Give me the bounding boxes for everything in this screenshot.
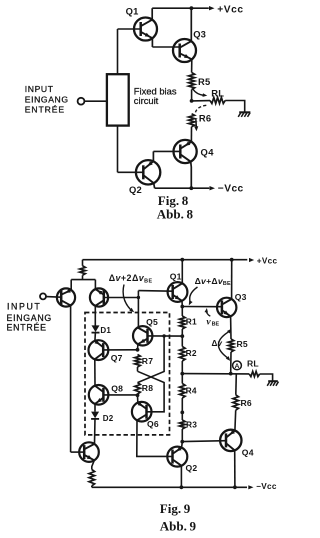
wire Q4 emitter to rail (fig9) xyxy=(234,450,236,487)
svg-text:RL: RL xyxy=(247,358,259,368)
svg-text:Q3: Q3 xyxy=(235,292,247,302)
resistor R8 xyxy=(135,383,141,394)
wire Q2 base (fig9) xyxy=(168,455,173,457)
svg-text:−Vcc: −Vcc xyxy=(218,184,244,195)
wire Q2 emitter to rail (fig9) xyxy=(180,466,182,488)
resistor R1 xyxy=(180,316,186,329)
transistor Q3 (fig9) xyxy=(217,298,236,317)
svg-text:R1: R1 xyxy=(186,317,197,327)
junction dot Q4 emitter on rail xyxy=(233,485,237,489)
svg-text:Abb. 9: Abb. 9 xyxy=(160,519,197,534)
svg-text:ENTRÉE: ENTRÉE xyxy=(7,323,47,333)
node A circle xyxy=(233,361,242,370)
junction dot below R5 xyxy=(229,372,233,376)
wire input pair top bar xyxy=(71,279,95,281)
wire feedback node vertical xyxy=(137,291,139,328)
arrow vBE to base-emitter xyxy=(206,310,210,316)
arrow deltaV+deltaVBE to Q1 emitter node xyxy=(190,287,198,302)
junction dot Q3 collector on rail xyxy=(230,258,234,262)
resistor R6 (fig9) xyxy=(233,395,239,410)
wire corner to Q1 base xyxy=(138,290,172,293)
svg-text:Q4: Q4 xyxy=(201,147,215,158)
wire RL to ground (fig9) xyxy=(260,374,273,381)
svg-text:Q1: Q1 xyxy=(170,272,182,282)
wire left input transistor collector down left side xyxy=(70,305,72,452)
wire R7 bottom lead xyxy=(137,367,139,371)
wire Q2 emitter to Q4 base xyxy=(153,150,180,152)
input terminal (fig8) xyxy=(78,98,85,105)
svg-text:Q3: Q3 xyxy=(193,28,206,39)
junction dot Q3 collector on +Vcc rail xyxy=(190,6,194,10)
emitter resistor lower-left xyxy=(89,470,95,486)
resistor R3 xyxy=(180,420,186,429)
wire left input transistor top lead xyxy=(70,280,72,291)
transistor lower-left driver xyxy=(79,442,99,462)
wire Q5 collector up to feedback node xyxy=(137,327,140,330)
wire fig8 +Vcc top rail xyxy=(152,7,209,9)
svg-text:Abb. 8: Abb. 8 xyxy=(157,207,194,222)
resistor R7 xyxy=(135,355,141,368)
svg-text:+Vcc: +Vcc xyxy=(217,5,243,16)
svg-text:EINGANG: EINGANG xyxy=(7,313,52,323)
wire lower-left transistor base xyxy=(71,451,85,453)
wire right input transistor top lead xyxy=(94,280,96,291)
junction dot Q4 on -Vcc rail xyxy=(189,186,193,190)
+Vcc rail arrow (fig9) xyxy=(249,258,254,262)
svg-text:EINGANG: EINGANG xyxy=(25,94,69,104)
wire Q1 collector to +Vcc rail xyxy=(151,8,153,19)
resistor RL (fig9) xyxy=(249,371,259,376)
transistor Q3 xyxy=(173,39,196,62)
wire R6 to Q4 collector xyxy=(190,127,192,142)
svg-text:Q5: Q5 xyxy=(146,317,158,327)
wire Q1 emitter to Q3 base xyxy=(152,46,179,48)
arc arrow deltaV across R5 xyxy=(218,331,230,359)
wire Q5 base to R1-R2 junction xyxy=(147,335,182,337)
transistor Q4 (fig8) xyxy=(174,140,197,163)
svg-text:R8: R8 xyxy=(142,383,153,393)
transistor Q8 xyxy=(89,385,109,405)
wire Q3 emitter to R5 xyxy=(191,59,193,72)
bias resistor (input pair) xyxy=(80,266,86,276)
resistor R4 xyxy=(180,384,186,399)
ground (fig8) xyxy=(239,111,250,113)
junction dot R8 bottom node xyxy=(136,393,140,397)
svg-text:R5: R5 xyxy=(198,76,210,87)
wire Q1 base to fixed-bias box top xyxy=(117,29,119,74)
wire RL to ground corner xyxy=(225,101,245,113)
wire D2 down to lower transistor collector xyxy=(94,418,97,444)
svg-text:Q8: Q8 xyxy=(111,383,123,393)
svg-text:+Vcc: +Vcc xyxy=(257,256,278,265)
junction dot Q2-Q4 drive node xyxy=(180,440,184,444)
wire right input transistor base xyxy=(104,297,139,299)
resistor R6 xyxy=(189,114,195,127)
wire R1 to R2 junction xyxy=(181,329,183,347)
wire R5 to node xyxy=(191,90,193,101)
wire node to R1 xyxy=(181,307,183,317)
wire Q6 emitter down to Q2 base corner xyxy=(137,420,168,456)
cross wire Q5 base branch to R8 top xyxy=(138,336,165,383)
wire R5 to node A junction xyxy=(230,352,232,374)
wire R6 to Q4 collector (fig9) xyxy=(234,410,237,431)
input transistor left xyxy=(57,288,75,306)
wire Q2 base xyxy=(118,171,144,173)
wire Q4 emitter to -Vcc rail xyxy=(190,162,193,189)
ground (fig9) xyxy=(268,380,278,382)
wire Q1 collector to rail (fig9) xyxy=(181,260,183,284)
svg-text:R6: R6 xyxy=(199,112,211,123)
svg-text:Q6: Q6 xyxy=(147,419,159,429)
transistor Q2 (fig8) xyxy=(136,160,160,184)
wire node row (R2/R4 junction to RL) xyxy=(182,373,249,375)
svg-text:D1: D1 xyxy=(100,326,111,335)
svg-text:Q7: Q7 xyxy=(111,353,123,363)
svg-text:D2: D2 xyxy=(103,414,114,423)
junction dot output node (fig8) xyxy=(190,99,194,103)
wire Q5 emitter to R7 top node xyxy=(137,344,139,350)
svg-text:BE: BE xyxy=(212,322,220,328)
wire R2 to node row xyxy=(181,361,183,374)
wire Q3 collector to rail (fig9) xyxy=(231,260,233,299)
wire Q3 collector to +Vcc rail xyxy=(190,8,192,41)
svg-text:A: A xyxy=(235,363,240,370)
transistor Q1 (fig9) xyxy=(168,282,188,302)
adjustment dashed arc for R6 xyxy=(195,105,206,114)
-Vcc rail arrow (fig8) xyxy=(210,186,216,190)
wire input terminal to left transistor xyxy=(46,296,61,299)
svg-text:R6: R6 xyxy=(241,398,252,408)
svg-text:INPUT: INPUT xyxy=(7,301,41,311)
fixed bias circuit box xyxy=(107,74,129,125)
wire right input transistor emitter to D1 xyxy=(94,306,96,326)
wire Q3 emitter to R5 (fig9) xyxy=(230,316,232,339)
wire node to RL xyxy=(192,100,210,102)
svg-text:−Vcc: −Vcc xyxy=(256,482,277,491)
resistor R5 xyxy=(189,73,195,90)
junction dot Q1 collector on rail xyxy=(180,258,184,262)
junction dot R1-R2 (Q5 base node) xyxy=(180,334,184,338)
transistor Q2 (fig9) xyxy=(167,447,187,467)
transistor Q6 xyxy=(132,402,152,422)
-Vcc rail arrow (fig9) xyxy=(248,485,253,489)
wire R8 bottom to node xyxy=(137,394,139,395)
svg-text:INPUT: INPUT xyxy=(25,84,54,94)
input transistor right xyxy=(90,288,108,306)
resistor R5 (fig9) xyxy=(228,339,234,352)
svg-text:Q1: Q1 xyxy=(126,6,139,17)
wire lower-left emitter to resistor xyxy=(92,460,95,469)
wire Q6 collector to R8 node xyxy=(137,395,139,402)
transistor Q4 (fig9) xyxy=(220,430,241,451)
wire bias resistor to pair bar xyxy=(82,275,84,279)
svg-text:R2: R2 xyxy=(186,348,197,358)
junction dot Q2 emitter on rail xyxy=(180,485,184,489)
junction dot R4-R3 (Q6 base node) xyxy=(180,411,184,415)
svg-text:ENTRÉE: ENTRÉE xyxy=(25,105,65,115)
wire fig9 +Vcc top rail xyxy=(83,259,248,261)
wire Q8 emitter to D2 xyxy=(94,404,96,412)
svg-text:R3: R3 xyxy=(186,419,197,429)
cross wire R7 bottom to Q6 side xyxy=(138,371,165,412)
wire drive node to Q4 base (fig9) xyxy=(182,440,226,443)
input terminal (fig9) xyxy=(40,293,46,299)
svg-text:Fig. 9: Fig. 9 xyxy=(160,501,191,516)
wire Q1 emitter down xyxy=(151,38,153,47)
svg-text:R5: R5 xyxy=(237,339,248,349)
adjustment arrow through R6 xyxy=(195,119,198,127)
resistor R2 xyxy=(180,347,186,362)
wire input terminal to fixed-bias box xyxy=(84,100,107,102)
wire Q7 collector to Q8 xyxy=(94,359,96,385)
svg-text:Q2: Q2 xyxy=(186,463,198,473)
junction dot node row left xyxy=(180,372,184,376)
wire R3 to Q2 collector node xyxy=(181,429,183,442)
transistor Q5 xyxy=(133,326,152,345)
junction dot R7 top node xyxy=(136,348,140,352)
wire fig8 -Vcc bottom rail xyxy=(155,187,210,189)
wire Q2 emitter up xyxy=(152,151,154,161)
transistor Q1 xyxy=(134,18,157,41)
wire Q1 emitter node to Q3 base xyxy=(182,306,222,308)
diode D1 xyxy=(92,325,100,332)
svg-text:Δv: Δv xyxy=(212,339,223,348)
wire R4 to R3 junction xyxy=(181,398,183,420)
wire Q7 base to R7 top node xyxy=(103,349,137,351)
current arrow toward RL xyxy=(193,89,205,96)
resistor RL (fig8) xyxy=(210,98,225,104)
wire fig9 -Vcc bottom rail xyxy=(92,486,247,488)
wire fixed-bias box bottom to Q2 base xyxy=(117,126,119,173)
transistor Q7 xyxy=(89,340,109,360)
wire emitter resistor to -Vcc rail xyxy=(91,486,93,488)
dashed box (thermal bias network) xyxy=(85,313,170,435)
junction dot Q1 emitter node xyxy=(180,305,184,309)
svg-text:circuit: circuit xyxy=(134,95,159,106)
svg-text:R4: R4 xyxy=(186,386,197,396)
junction dot Q5 base tee xyxy=(162,334,165,337)
arrow deltaV+2deltaVBE to bias network xyxy=(123,285,131,310)
wire Q2 collector to -Vcc rail xyxy=(153,183,156,188)
wire rail to bias resistor xyxy=(82,260,84,266)
wire node A to R6 xyxy=(235,374,238,395)
svg-text:Q2: Q2 xyxy=(129,184,142,195)
svg-text:R7: R7 xyxy=(142,356,153,366)
wire Q1 emitter to node (fig9) xyxy=(181,301,183,307)
wire Q1 base xyxy=(118,28,141,30)
wire node row to R4 xyxy=(181,374,183,384)
wire D1 to Q7 emitter xyxy=(94,332,97,341)
svg-text:Q4: Q4 xyxy=(242,447,254,457)
+Vcc rail arrow xyxy=(209,6,215,10)
junction dot feedback node xyxy=(137,296,140,299)
wire Q2 collector up to drive node xyxy=(181,442,184,448)
diode D2 xyxy=(91,412,99,419)
wire Q8 base to R8 bottom node xyxy=(103,394,137,396)
